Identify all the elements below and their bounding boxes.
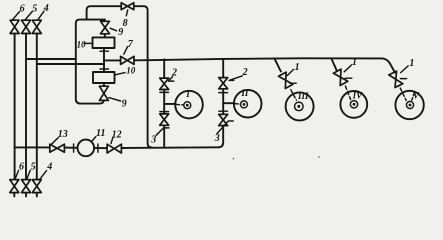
- valve 13: [50, 144, 65, 152]
- valve 12: [107, 144, 121, 153]
- svg-text:12: 12: [112, 129, 122, 140]
- wire: lower apparatus to valve 9 lower: [103, 83, 105, 86]
- flange tick branch I upper: [160, 91, 169, 93]
- leader label 10 lower: [115, 73, 125, 75]
- valve 7: [121, 56, 134, 64]
- pump 11 circle: [78, 140, 95, 157]
- leader label 1 (branch III): [287, 69, 293, 75]
- leader label 2 (branch I): [168, 77, 173, 82]
- branch I: riser: [163, 59, 165, 78]
- valve 6 (bottom): [10, 180, 19, 193]
- valve 2 (branch I): [160, 78, 169, 89]
- valve 1 (branch III): [279, 72, 293, 88]
- leader label 2 (branch II): [229, 76, 242, 81]
- stub to machine II: [223, 102, 234, 104]
- valve 9 (upper): [101, 21, 110, 34]
- svg-text:8: 8: [123, 18, 128, 29]
- leader label 12: [111, 137, 113, 143]
- svg-text:10: 10: [77, 39, 87, 49]
- svg-text:1: 1: [295, 62, 300, 73]
- leader label 4 bottom: [40, 171, 47, 180]
- dashed drop to machine III: [291, 90, 297, 100]
- valve 5 (top): [22, 20, 31, 33]
- dust speck: [233, 158, 235, 160]
- wire: bottom line segments: [15, 146, 50, 148]
- svg-text:1: 1: [352, 57, 357, 68]
- machine V extra dash: [412, 93, 415, 101]
- valve 8: [121, 3, 134, 10]
- flange tick right of pump: [97, 144, 99, 152]
- leader label 9 upper: [110, 28, 116, 31]
- svg-text:3: 3: [214, 133, 220, 144]
- wire: inner loop (left bypass): [76, 20, 105, 104]
- valve 3 (branch II): [219, 114, 228, 125]
- valve 4 (bottom): [32, 180, 41, 193]
- leader label 11: [91, 137, 96, 142]
- svg-text:1: 1: [409, 58, 414, 69]
- apparatus 10 (lower rectangle): [93, 72, 115, 83]
- svg-text:3: 3: [150, 134, 156, 145]
- flag branch V: [400, 78, 406, 80]
- flange tick above lower apparatus: [100, 68, 109, 70]
- leader label 5 bottom: [27, 170, 30, 179]
- svg-text:9: 9: [118, 27, 123, 38]
- wire: outer loop right side down to bottom line: [134, 6, 152, 147]
- wire below valve 2 branch II: [222, 89, 224, 115]
- svg-text:2: 2: [242, 67, 248, 78]
- machine II dashed stub: [235, 103, 240, 106]
- valve 1 (branch V): [389, 71, 403, 87]
- machine I dashed stub: [177, 104, 184, 106]
- svg-text:2: 2: [171, 67, 177, 78]
- wire: to valve 7: [104, 59, 121, 61]
- wire: branch II down joining bottom line: [218, 126, 223, 148]
- wire H2 from column 3 to heater connector: [37, 63, 104, 65]
- machine V circle: [395, 91, 423, 119]
- wire: outer loop with valve 8: [87, 6, 122, 19]
- svg-text:6: 6: [19, 161, 24, 172]
- leader label 5 top: [25, 12, 32, 20]
- wire: connector between the two apparatus: [103, 48, 105, 72]
- svg-text:V: V: [413, 90, 420, 100]
- machine IV circle: [340, 91, 367, 118]
- machine III hub: [295, 102, 304, 111]
- machine II hub: [240, 101, 247, 108]
- wire below valve 2 branch I: [163, 90, 165, 114]
- wire: branch I down to bottom line: [163, 125, 165, 147]
- leader label 1 (branch V): [401, 66, 408, 73]
- branch IV drop: [331, 58, 337, 70]
- svg-text:5: 5: [31, 161, 36, 172]
- wire: supply column 3: [36, 34, 38, 180]
- dashed drop to machine V: [400, 88, 406, 100]
- dust speck: [318, 156, 320, 158]
- svg-text:II: II: [240, 88, 249, 98]
- flange tick branch I lower: [160, 111, 169, 113]
- wire: main distribution line to the right: [148, 58, 395, 72]
- flange tick left of pump: [73, 144, 75, 152]
- valve 5 (bottom): [22, 180, 31, 193]
- machine II circle: [234, 90, 262, 118]
- branch III drop: [274, 58, 281, 71]
- svg-text:5: 5: [32, 3, 37, 14]
- valve 4 (top): [32, 20, 41, 33]
- svg-text:13: 13: [58, 129, 68, 140]
- wire: valve 7 to right loop: [134, 59, 148, 61]
- machine V hub: [406, 101, 413, 108]
- wire: supply column 1: [14, 34, 16, 180]
- svg-text:III: III: [297, 91, 309, 101]
- stubs below bottom valves: [13, 193, 15, 197]
- svg-text:IV: IV: [352, 91, 364, 101]
- valve 3 (branch I): [160, 114, 169, 125]
- leader label 6 bottom: [15, 170, 19, 179]
- wire: supply column 2: [25, 34, 27, 180]
- wire: valve9 to apparatus 10 (upper): [104, 34, 106, 38]
- leader label 1 (branch IV): [344, 65, 351, 72]
- flag branch IV: [345, 77, 352, 79]
- svg-text:10: 10: [126, 66, 136, 76]
- leader label 3 (branch I): [156, 128, 169, 135]
- svg-text:11: 11: [96, 128, 105, 139]
- stub to machine I: [164, 103, 175, 105]
- apparatus 10 (upper rectangle): [93, 37, 115, 48]
- valve 2 (branch II): [219, 78, 228, 89]
- leader label 6 top: [13, 12, 20, 20]
- svg-text:4: 4: [43, 3, 49, 14]
- leader label 10 upper: [84, 42, 93, 44]
- svg-text:7: 7: [128, 39, 134, 50]
- leader label 7: [124, 47, 128, 55]
- machine IV hub: [350, 101, 357, 108]
- valve 1 (branch IV): [333, 69, 347, 85]
- leader label 13: [51, 138, 58, 145]
- flange tick branch II lower: [219, 110, 228, 112]
- machine III circle: [286, 92, 314, 120]
- svg-text:9: 9: [122, 98, 127, 109]
- svg-text:4: 4: [46, 162, 52, 173]
- flange tick branch II upper: [219, 92, 228, 94]
- leader label 4 top: [38, 11, 44, 19]
- valve 9 (lower): [99, 86, 108, 100]
- leader label 9 lower: [109, 98, 121, 101]
- flag branch III: [290, 82, 296, 84]
- machine I circle: [175, 91, 203, 119]
- leader label 3 (branch II): [217, 121, 233, 134]
- leader label 8: [126, 10, 127, 16]
- wire H1 from column 2 to descaler loop: [26, 58, 76, 60]
- branch II: riser: [222, 59, 224, 78]
- machine I hub: [184, 102, 191, 109]
- valve 6 (top): [10, 20, 19, 33]
- dashed drop to machine IV: [345, 86, 350, 99]
- flange tick below upper apparatus: [100, 50, 109, 52]
- svg-text:I: I: [185, 89, 190, 99]
- svg-text:6: 6: [20, 3, 25, 14]
